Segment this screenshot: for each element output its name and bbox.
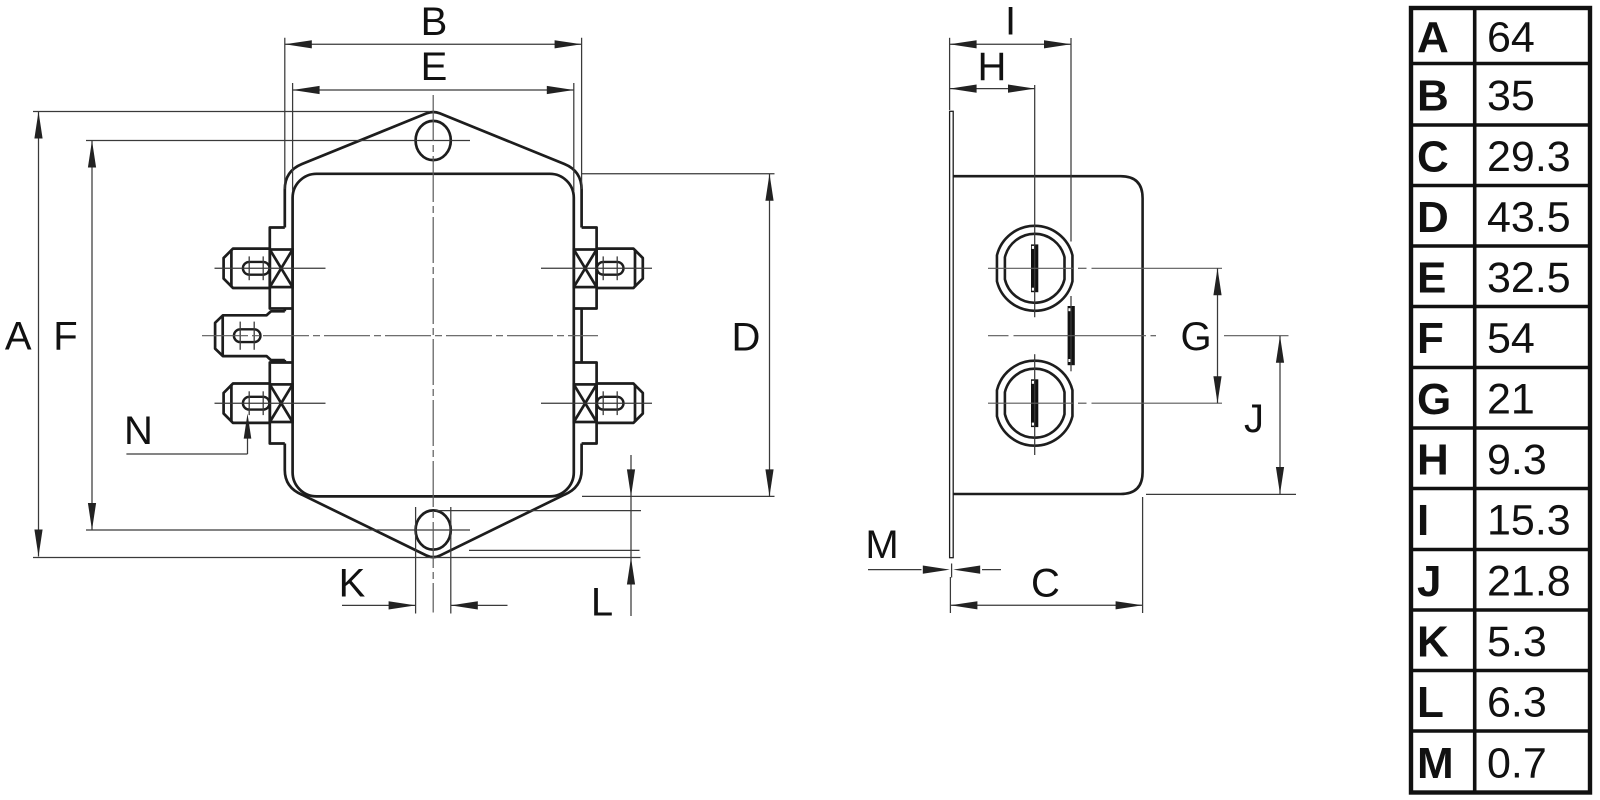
svg-text:35: 35 <box>1487 72 1535 120</box>
svg-text:21.8: 21.8 <box>1487 557 1571 605</box>
svg-text:43.5: 43.5 <box>1487 193 1571 241</box>
svg-text:H: H <box>1417 435 1449 484</box>
svg-text:G: G <box>1417 375 1451 424</box>
svg-text:F: F <box>53 315 77 359</box>
svg-text:15.3: 15.3 <box>1487 497 1571 545</box>
svg-text:5.3: 5.3 <box>1487 618 1547 666</box>
svg-text:L: L <box>1417 678 1444 727</box>
svg-text:A: A <box>1417 13 1449 62</box>
svg-text:E: E <box>1417 253 1446 302</box>
svg-text:L: L <box>591 581 613 625</box>
svg-text:54: 54 <box>1487 315 1535 363</box>
svg-text:M: M <box>865 523 898 567</box>
svg-text:21: 21 <box>1487 375 1535 423</box>
svg-text:D: D <box>732 316 761 360</box>
svg-text:H: H <box>978 45 1007 89</box>
svg-text:G: G <box>1180 315 1211 359</box>
svg-text:D: D <box>1417 193 1449 242</box>
svg-text:M: M <box>1417 739 1454 788</box>
svg-text:C: C <box>1031 562 1060 606</box>
svg-text:0.7: 0.7 <box>1487 739 1547 787</box>
svg-text:9.3: 9.3 <box>1487 436 1547 484</box>
svg-text:64: 64 <box>1487 13 1535 61</box>
svg-text:J: J <box>1417 557 1441 606</box>
svg-text:29.3: 29.3 <box>1487 133 1571 181</box>
svg-text:A: A <box>5 315 32 359</box>
svg-text:32.5: 32.5 <box>1487 254 1571 302</box>
svg-text:6.3: 6.3 <box>1487 678 1547 726</box>
svg-text:B: B <box>421 0 448 44</box>
svg-text:B: B <box>1417 71 1449 120</box>
svg-text:E: E <box>421 45 448 89</box>
svg-text:C: C <box>1417 132 1449 181</box>
svg-text:F: F <box>1417 314 1444 363</box>
svg-text:I: I <box>1005 0 1016 44</box>
svg-text:K: K <box>339 562 366 606</box>
svg-text:J: J <box>1244 397 1264 441</box>
svg-text:N: N <box>124 409 153 453</box>
svg-text:I: I <box>1417 496 1429 545</box>
svg-text:K: K <box>1417 617 1449 666</box>
